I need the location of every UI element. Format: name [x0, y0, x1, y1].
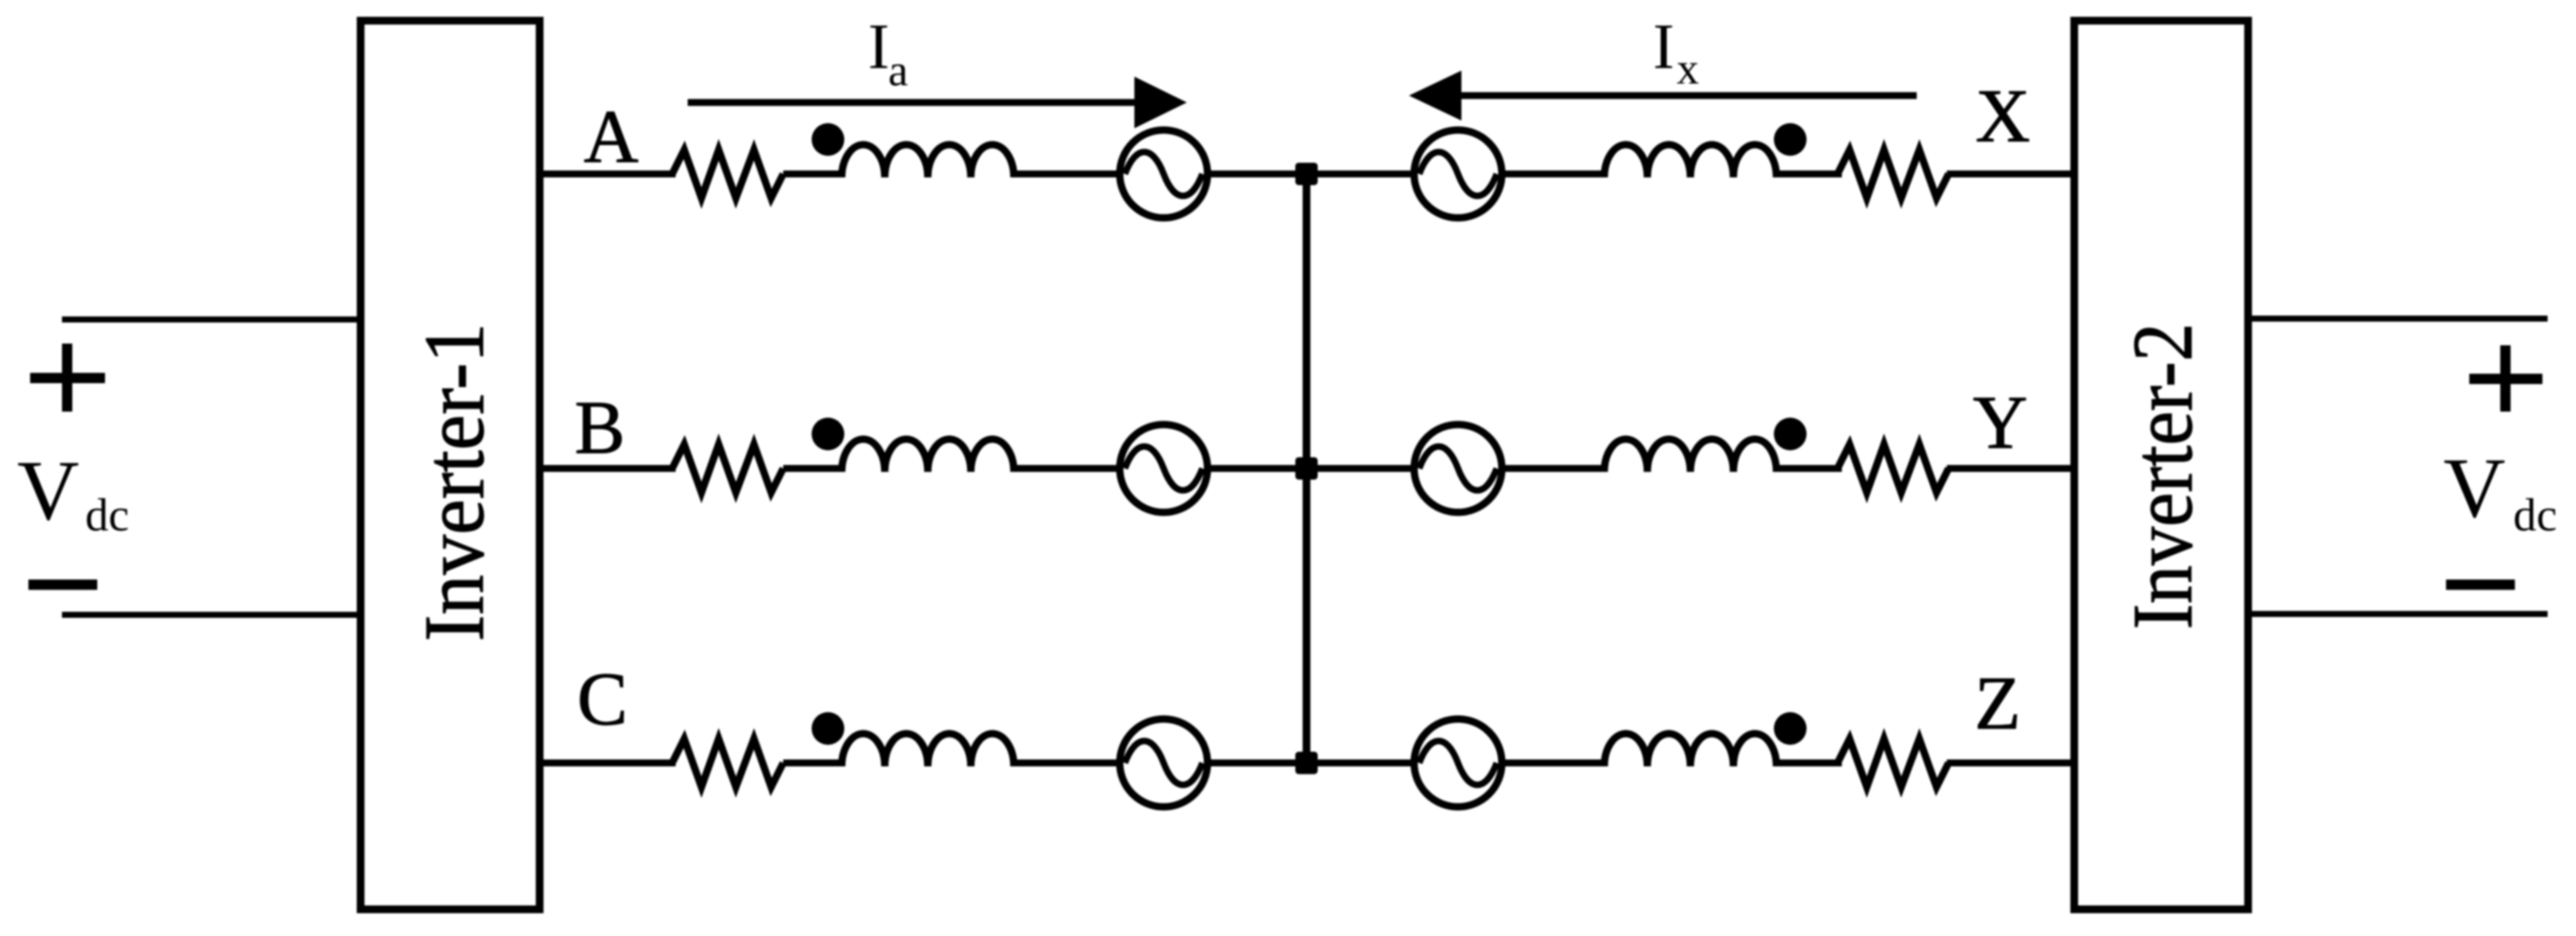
label Ix [1653, 11, 1699, 94]
junction B-bus [1295, 457, 1318, 480]
svg-text:A: A [584, 96, 639, 179]
plus terminal right [2469, 345, 2542, 412]
resistor phase B (left) [672, 444, 783, 493]
plus terminal left [30, 344, 105, 412]
junction C-bus [1295, 752, 1318, 774]
wire inductor to source, phase B [1014, 465, 1123, 472]
inductor phase C (left) [842, 734, 1014, 766]
wire source to inductor, phase Y [1500, 465, 1608, 472]
wire bus to right source, phase X [1307, 170, 1416, 177]
wire inverter-1 to resistor, phase B [540, 465, 676, 472]
inverter U1 (Inverter-1 box) [361, 21, 540, 909]
label Vdc left [17, 443, 129, 541]
svg-text:dc: dc [85, 489, 129, 541]
svg-text:Y: Y [1973, 381, 2028, 465]
resistor phase A (left) [672, 150, 783, 198]
polarity dot, left inductor phase A [812, 123, 844, 156]
minus terminal right [2446, 580, 2515, 590]
resistor phase Y (right) [1838, 444, 1949, 493]
polarity dot, left inductor phase B [812, 418, 844, 450]
polarity dot, right inductor phase Z [1774, 712, 1807, 745]
resistor phase Z (right) [1838, 739, 1949, 787]
ac source phase B (left) [1120, 425, 1208, 512]
ac source phase X (right) [1414, 130, 1502, 218]
ac source phase Y (right) [1414, 425, 1502, 512]
resistor phase X (right) [1838, 150, 1949, 198]
polarity dot, right inductor phase Y [1774, 418, 1807, 450]
svg-text:x: x [1677, 45, 1699, 94]
wire inductor to source, phase A [1014, 170, 1123, 177]
wire resistor to inverter-2, phase Z [1947, 759, 2076, 766]
polarity dot, right inductor phase X [1774, 123, 1807, 156]
ac source phase C (left) [1120, 719, 1208, 807]
svg-text:C: C [578, 658, 628, 741]
wire inverter-1 to resistor, phase C [540, 759, 676, 766]
ac source phase A (left) [1120, 130, 1208, 218]
wire inductor to resistor, phase X [1775, 170, 1842, 177]
svg-text:X: X [1975, 75, 2030, 158]
wire source to inductor, phase X [1500, 170, 1608, 177]
dc rail bottom right [2247, 611, 2548, 617]
dc rail top left [62, 317, 361, 323]
current arrow Ix [1461, 92, 1917, 99]
inductor phase Z (right) [1604, 734, 1776, 766]
label Ia [868, 11, 909, 96]
dc rail top right [2247, 316, 2548, 322]
svg-text:I: I [1653, 11, 1675, 83]
inverter U2 (Inverter-2 box) [2074, 21, 2248, 909]
current arrow Ia [688, 99, 1145, 106]
inductor phase B (left) [842, 439, 1014, 472]
minus terminal left [28, 580, 97, 590]
wire resistor to inverter-2, phase X [1947, 170, 2076, 177]
ac source phase Z (right) [1414, 719, 1502, 807]
inductor phase X (right) [1604, 145, 1776, 177]
wire source to bus, phase B [1208, 465, 1307, 472]
svg-text:Z: Z [1974, 662, 2021, 746]
junction A-bus [1295, 163, 1318, 185]
svg-text:B: B [575, 387, 626, 470]
svg-text:a: a [888, 46, 908, 96]
wire inverter-1 to resistor, phase A [540, 170, 676, 177]
svg-text:V: V [17, 443, 79, 538]
svg-text:Inverter-2: Inverter-2 [2115, 323, 2210, 629]
wire bus to right source, phase Y [1307, 465, 1416, 472]
wire source to bus, phase A [1208, 170, 1307, 177]
wire resistor to inverter-2, phase Y [1947, 465, 2076, 472]
wire resistor to inductor, phase B [783, 465, 843, 472]
wire source to inductor, phase Z [1500, 759, 1608, 766]
label Vdc right [2443, 440, 2557, 541]
wire resistor to inductor, phase C [783, 759, 843, 766]
centre bus wire [1303, 174, 1311, 763]
svg-text:I: I [868, 11, 890, 83]
inductor phase Y (right) [1604, 439, 1776, 472]
svg-text:dc: dc [2513, 489, 2557, 541]
wire source to bus, phase C [1208, 759, 1307, 766]
wire bus to right source, phase Z [1307, 759, 1416, 766]
resistor phase C (left) [672, 739, 783, 787]
polarity dot, left inductor phase C [812, 712, 844, 745]
dc rail bottom left [62, 612, 361, 618]
svg-text:V: V [2443, 440, 2505, 536]
wire resistor to inductor, phase A [783, 170, 843, 177]
inductor phase A (left) [842, 145, 1014, 177]
wire inductor to source, phase C [1014, 759, 1123, 766]
wire inductor to resistor, phase Z [1775, 759, 1842, 766]
svg-text:Inverter-1: Inverter-1 [406, 323, 502, 642]
wire inductor to resistor, phase Y [1775, 465, 1842, 472]
